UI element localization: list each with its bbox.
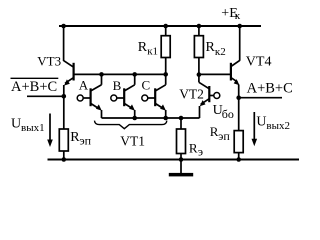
label Rk2 xyxy=(206,40,226,58)
arrow Uvyh2 xyxy=(252,112,258,146)
node junction VT3 emitter output xyxy=(62,94,67,99)
label Rep2 xyxy=(210,124,231,143)
node junction VT1c emitter xyxy=(163,116,168,121)
label Rep1 xyxy=(70,130,91,147)
wire VT4 base xyxy=(199,73,231,75)
node junction VT1a collector xyxy=(99,72,104,77)
label Re xyxy=(189,140,203,158)
resistor Re xyxy=(177,118,186,160)
transistor VT4 xyxy=(231,26,240,98)
svg-text:VT3: VT3 xyxy=(37,53,61,68)
svg-text:R: R xyxy=(189,140,198,155)
svg-text:э: э xyxy=(198,144,203,158)
transistor VT1c input C xyxy=(142,74,166,118)
resistor Rep2 xyxy=(234,131,243,160)
node junction VT4 collector to rail xyxy=(237,24,242,29)
arrow Uvyh1 xyxy=(47,114,53,148)
svg-text:к: к xyxy=(235,10,241,22)
svg-text:к2: к2 xyxy=(215,46,226,58)
svg-text:эп: эп xyxy=(218,129,230,143)
resistor Rk2 xyxy=(194,26,203,75)
node junction Rk1 to rail xyxy=(163,24,168,29)
svg-text:U: U xyxy=(256,115,266,130)
svg-text:A+B+C: A+B+C xyxy=(11,79,57,95)
svg-text:бо: бо xyxy=(222,107,234,121)
node junction Re to ground rail xyxy=(179,157,184,162)
svg-text:U: U xyxy=(11,117,21,132)
node junction VT4 emitter output xyxy=(236,95,241,100)
node junction Rk2 / VT2 collector / VT4 base xyxy=(197,72,202,77)
wire VT4 emitter to Rep2 xyxy=(238,98,240,131)
svg-text:A: A xyxy=(79,78,89,93)
node junction Rk2 to rail xyxy=(197,24,202,29)
ground xyxy=(169,160,193,177)
wire common emitter bus xyxy=(102,117,200,119)
svg-text:VT4: VT4 xyxy=(246,55,272,70)
label +Ek supply xyxy=(221,6,241,22)
node junction Re tap xyxy=(179,116,184,121)
node junction VT3 collector to rail xyxy=(61,24,66,29)
node junction Rep2 to ground rail xyxy=(236,157,241,162)
wire OR output stub xyxy=(239,97,282,99)
node junction Rep1 to ground rail xyxy=(62,157,67,162)
svg-text:вых1: вых1 xyxy=(21,122,45,134)
svg-text:B: B xyxy=(113,78,122,93)
resistor Rk1 xyxy=(161,26,170,74)
node junction VT1b emitter xyxy=(132,116,137,121)
label Uvyh1 voltage xyxy=(11,117,45,135)
svg-text:вых2: вых2 xyxy=(266,120,290,132)
node junction Rk1 / VT1c collector xyxy=(163,72,168,77)
transistor VT1a input A xyxy=(77,74,102,118)
svg-text:C: C xyxy=(142,78,151,93)
wire bottom ground rail xyxy=(48,159,300,161)
transistor VT3 xyxy=(64,26,74,96)
resistor Rep1 xyxy=(59,129,68,160)
wire NOR collector bus (VT3 base) xyxy=(74,73,166,75)
wire NOR output stub xyxy=(27,95,64,97)
label Rk1 xyxy=(138,40,158,58)
svg-text:A+B+C: A+B+C xyxy=(247,81,293,97)
svg-text:VT2: VT2 xyxy=(179,86,204,101)
wire top supply rail xyxy=(59,25,261,27)
label Ubo voltage xyxy=(213,103,234,121)
svg-text:эп: эп xyxy=(80,134,92,148)
wire VT3 emitter to Rep1 xyxy=(63,96,65,129)
transistor VT1b input B xyxy=(111,74,135,118)
brace VT1 group xyxy=(95,121,167,129)
svg-text:к1: к1 xyxy=(147,46,158,58)
label output A+B+C inverted xyxy=(11,78,59,95)
node junction VT1b collector xyxy=(132,72,137,77)
svg-text:VT1: VT1 xyxy=(120,134,145,149)
label Uvyh2 voltage xyxy=(256,115,290,133)
transistor VT2 xyxy=(199,75,220,118)
